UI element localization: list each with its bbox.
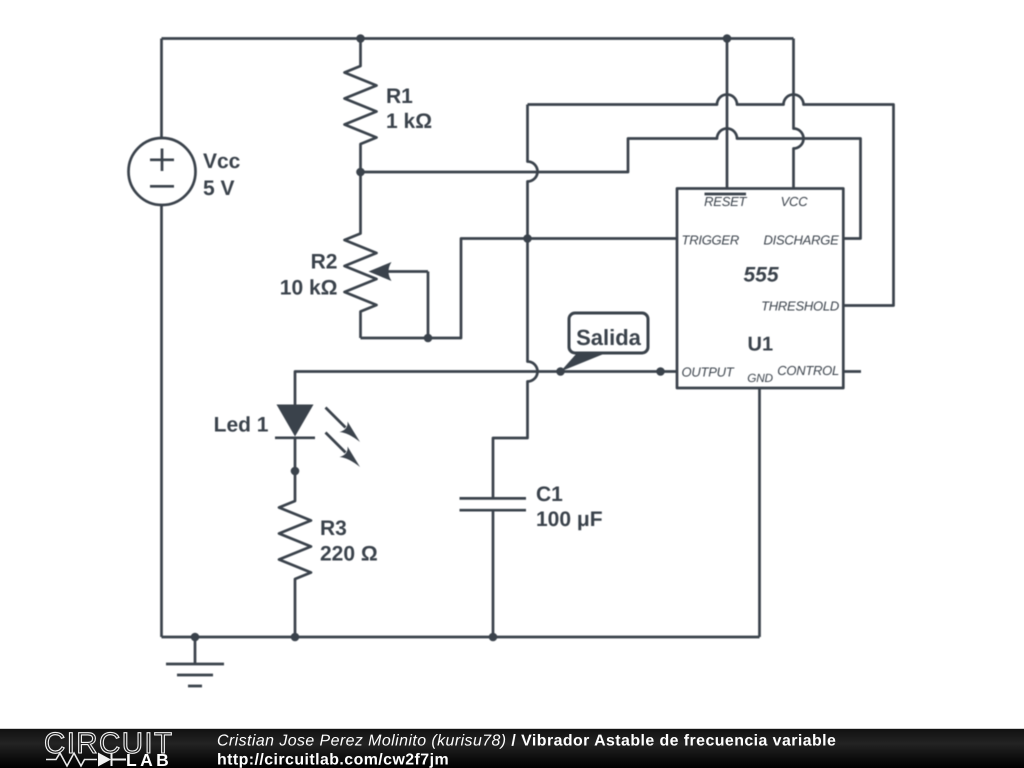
junction dot LED R3 xyxy=(291,467,300,476)
junction dot salida xyxy=(556,367,565,376)
wire VCC drop with hop xyxy=(794,39,804,189)
wire bottom rail xyxy=(162,636,760,639)
wire OUTPUT left to LED xyxy=(295,372,677,405)
node flag Salida pointer xyxy=(561,353,607,372)
svg-text:R1: R1 xyxy=(386,85,413,108)
svg-text:100 μF: 100 μF xyxy=(536,508,603,531)
svg-text:U1: U1 xyxy=(748,334,774,356)
junction dot trigger center xyxy=(523,234,532,243)
svg-text:R2: R2 xyxy=(311,251,338,274)
LED light arrows xyxy=(326,408,361,468)
wire GND pin drop xyxy=(758,388,761,637)
ground xyxy=(166,637,224,686)
resistor R1 xyxy=(345,39,377,173)
junction dot C1 bottom xyxy=(489,633,498,642)
svg-text:RESET: RESET xyxy=(704,194,747,209)
svg-text:http://circuitlab.com/cw2f7jm: http://circuitlab.com/cw2f7jm xyxy=(217,752,449,768)
svg-text:GND: GND xyxy=(747,371,773,385)
wire RESET drop xyxy=(726,39,729,189)
wire left rail upper xyxy=(160,39,163,139)
potentiometer R2 xyxy=(345,172,377,338)
wire center vertical to C1 with hops xyxy=(493,105,538,499)
svg-text:DISCHARGE: DISCHARGE xyxy=(763,233,839,248)
junction dot R3 bottom xyxy=(291,633,300,642)
wire DISCHARGE loop with hop xyxy=(361,129,861,239)
svg-text:CONTROL: CONTROL xyxy=(777,363,839,378)
svg-text:220 Ω: 220 Ω xyxy=(320,543,378,566)
logo zigzag diode xyxy=(46,753,97,766)
svg-text:LAB: LAB xyxy=(126,750,172,768)
svg-text:TRIGGER: TRIGGER xyxy=(682,233,739,248)
wire R2 wiper down xyxy=(427,272,430,339)
potentiometer R2 wiper arrow xyxy=(388,270,428,273)
svg-text:THRESHOLD: THRESHOLD xyxy=(761,298,839,313)
junction dot ground xyxy=(191,633,200,642)
wire CONTROL stub xyxy=(843,370,861,373)
svg-text:Led 1: Led 1 xyxy=(214,413,269,436)
junction dot top rail RESET xyxy=(723,34,732,43)
junction dot top rail R1 xyxy=(356,34,365,43)
op-amp U1 555 IC box xyxy=(677,189,843,389)
capacitor C1 xyxy=(460,497,527,500)
svg-text:1 kΩ: 1 kΩ xyxy=(386,110,432,133)
LED Led1 xyxy=(277,405,314,437)
svg-text:555: 555 xyxy=(743,264,778,287)
svg-text:R3: R3 xyxy=(320,517,347,540)
node flag Salida box xyxy=(569,313,648,353)
resistor R3 xyxy=(279,471,311,637)
svg-text:Vcc: Vcc xyxy=(203,150,241,173)
junction dot R1 R2 xyxy=(356,168,365,177)
svg-text:5 V: 5 V xyxy=(203,177,235,200)
wire left rail lower xyxy=(160,205,163,638)
svg-text:OUTPUT: OUTPUT xyxy=(682,364,735,379)
svg-text:Cristian Jose Perez Molinito (: Cristian Jose Perez Molinito (kurisu78) … xyxy=(217,733,836,750)
wire top rail xyxy=(162,37,794,40)
wire THRESHOLD right loop with hops xyxy=(528,95,894,306)
svg-text:C1: C1 xyxy=(536,483,563,506)
voltage source Vcc xyxy=(129,138,196,205)
svg-text:10 kΩ: 10 kΩ xyxy=(280,277,338,300)
junction dot R2 bottom xyxy=(424,334,433,343)
svg-text:VCC: VCC xyxy=(781,194,809,209)
junction dot output pin xyxy=(656,367,665,376)
wire TRIGGER to R2 bottom xyxy=(361,239,678,339)
svg-text:Salida: Salida xyxy=(576,325,642,350)
